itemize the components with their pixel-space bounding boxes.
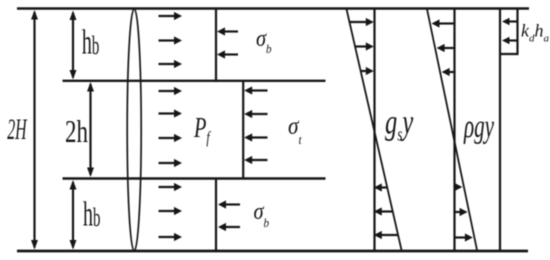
rho-g-y lower arrow 1	[454, 183, 462, 191]
svg-text:gsy: gsy	[385, 102, 414, 145]
svg-text:σb: σb	[254, 197, 270, 230]
sigma_b bottom arrow 1	[218, 200, 240, 208]
rho-g-y lower arrow 2	[456, 208, 468, 216]
svg-text:σb: σb	[256, 24, 272, 56]
P_f pressure arrow top band 2	[159, 36, 183, 44]
rho-g-y slant line	[427, 9, 477, 250]
dimension arrow h_b top	[70, 11, 77, 80]
P_f pressure arrow top band 1	[159, 12, 183, 20]
upper interface line	[63, 80, 326, 82]
g_s-y lower arrow 1	[374, 183, 387, 191]
rho-g-y lower arrow 3	[456, 233, 473, 241]
P_f pressure arrow bottom band 2	[159, 207, 183, 215]
sigma_t arrow 1	[244, 86, 267, 94]
dimension arrow 2h	[87, 82, 94, 177]
sigma_b top boundary vertical	[215, 9, 217, 81]
P_f pressure arrow top band 3	[159, 60, 183, 68]
sigma_b top arrow 1	[217, 27, 238, 35]
sigma_t boundary vertical	[242, 81, 244, 178]
P_f pressure arrow middle band 4	[159, 159, 183, 167]
fracture ellipse (crack)	[127, 9, 141, 251]
P_f pressure arrow middle band 3	[159, 134, 183, 142]
g_s-y lower arrow 3	[374, 231, 398, 239]
rho-g-y upper arrow 3	[442, 68, 454, 76]
dimension arrow h_b bottom	[70, 180, 77, 250]
sigma_t arrow 2	[244, 110, 267, 118]
g_s-y lower arrow 2	[374, 207, 393, 215]
k_d-h_a box bottom line	[499, 53, 519, 55]
svg-text:kdha: kdha	[521, 20, 550, 44]
rho-g-y axis vertical line	[453, 9, 455, 250]
k_d-h_a arrow 1	[502, 18, 517, 25]
P_f pressure arrow bottom band 1	[159, 183, 183, 191]
g_s-y axis vertical line	[373, 9, 375, 250]
sigma_t arrow 4	[244, 156, 267, 164]
rho-g-y upper arrow 1	[432, 19, 454, 27]
rho-g-y upper arrow 2	[437, 44, 454, 52]
svg-text:hb: hb	[83, 196, 100, 234]
k_d-h_a box right vertical	[516, 9, 518, 54]
sigma_b bottom boundary vertical	[215, 178, 217, 250]
svg-text:ρgy: ρgy	[463, 107, 494, 144]
g_s-y slant line	[347, 9, 402, 250]
lower interface line	[63, 177, 326, 179]
P_f pressure arrow middle band 2	[159, 109, 183, 117]
right boundary vertical line	[499, 9, 501, 250]
top boundary line (roof)	[17, 7, 529, 10]
P_f pressure arrow middle band 1	[159, 87, 183, 95]
svg-text:Pf: Pf	[193, 113, 211, 148]
g_s-y upper arrow 3	[361, 67, 374, 75]
sigma_b top arrow 2	[217, 50, 238, 58]
k_d-h_a arrow 2	[502, 37, 517, 44]
dimension arrow 2H	[31, 10, 38, 250]
svg-text:hb: hb	[82, 24, 99, 62]
svg-text:σt: σt	[288, 112, 302, 147]
P_f pressure arrow bottom band 3	[159, 233, 183, 241]
svg-text:2H: 2H	[7, 114, 28, 146]
g_s-y upper arrow 2	[355, 42, 374, 50]
svg-text:2h: 2h	[65, 114, 88, 150]
g_s-y upper arrow 1	[350, 18, 374, 26]
sigma_b bottom arrow 2	[218, 223, 240, 231]
sigma_t arrow 3	[244, 133, 267, 141]
bottom boundary line (floor)	[17, 250, 528, 253]
